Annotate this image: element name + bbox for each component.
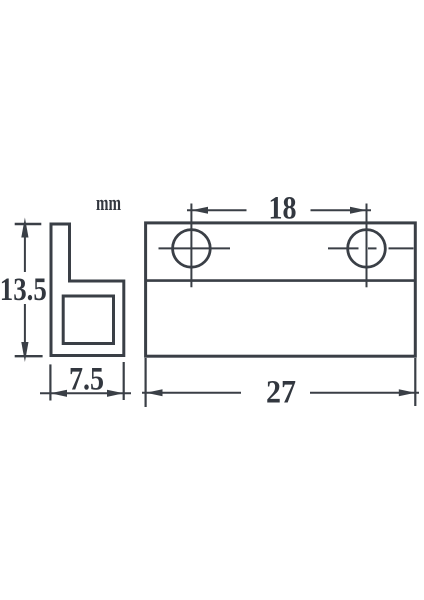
hole H2 horizontal centerline right dash [389,247,414,249]
dim 13.5 down arrow [21,342,28,362]
svg-text:7.5: 7.5 [69,362,104,398]
dim 7.5 right extension line [123,362,125,400]
hole H2 vertical centerline [366,204,368,288]
svg-text:18: 18 [269,191,297,227]
dim 13.5 bottom extension tick [15,355,43,357]
dim 27 right extension line [414,358,416,406]
side view inner square hole [63,296,113,344]
hole H2 horizontal centerline left dash [328,247,359,249]
dim 27 right arrow [399,389,416,396]
dim 18 line left segment [187,209,247,211]
dim 13.5 line lower segment [24,304,26,348]
hole H1 horizontal centerline [159,247,231,249]
front view divider line [146,279,416,282]
svg-text:13.5: 13.5 [0,272,47,308]
dim 7.5 left extension line [49,364,51,400]
dim 13.5 up arrow [21,218,28,238]
dim 7.5 left arrow [50,390,67,397]
dim 18 right arrow [350,207,367,214]
dim 27 line left segment [142,392,241,394]
dim 13.5 top extension tick [15,223,42,225]
dim 27 line right segment [310,392,419,394]
svg-text:mm: mm [96,190,121,215]
dim 7.5 line [40,392,131,394]
dim 18 line right segment [311,209,372,211]
front view body rectangle [146,223,416,356]
dim 18 left arrow [191,207,208,214]
dim 27 left arrow [146,389,163,396]
hole H1 circle [173,230,211,268]
dim 7.5 right arrow [107,390,124,397]
side view L-profile outline [51,224,124,356]
hole H1 vertical centerline [190,204,192,288]
hole H2 circle [348,230,386,268]
dim 13.5 line upper segment [24,231,26,272]
svg-text:27: 27 [266,375,296,411]
dim 27 left extension line [145,358,147,407]
hole H2 horizontal centerline center dash [368,247,377,249]
